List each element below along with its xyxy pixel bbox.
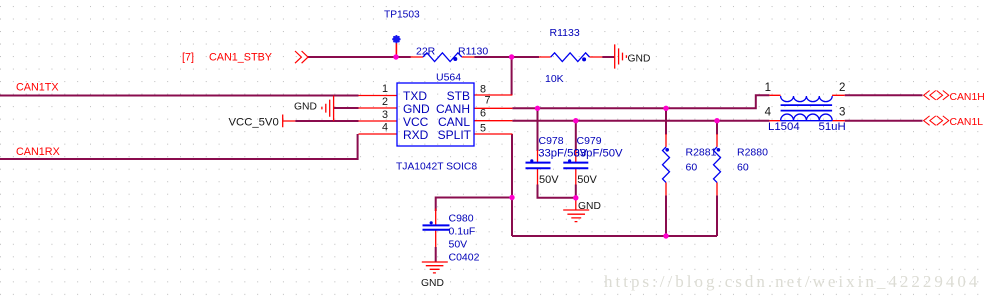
junction STB node: [509, 54, 514, 59]
wire R1130 to junction: [474, 56, 511, 58]
svg-text:https://blog.csdn.net/weixin_4: https://blog.csdn.net/weixin_42229404: [604, 272, 980, 291]
wire C979 bottom: [575, 185, 577, 198]
svg-text:60: 60: [737, 162, 749, 174]
svg-text:TXD: TXD: [403, 89, 427, 103]
svg-text:[7]: [7]: [182, 52, 194, 64]
resistor R1133 zigzag: [551, 53, 590, 62]
wire split bottom rail: [512, 235, 717, 237]
wire C980 to split junction: [436, 198, 512, 212]
svg-text:CAN1H: CAN1H: [950, 92, 985, 103]
svg-text:50V: 50V: [577, 174, 597, 186]
junction C978/CANH: [535, 106, 540, 111]
wire choke pin3 to port CAN1L: [845, 120, 923, 122]
svg-text:TP1503: TP1503: [384, 10, 420, 21]
svg-text:C980: C980: [449, 213, 474, 225]
svg-text:1: 1: [382, 83, 388, 95]
wire C978 bottom to gnd rail: [538, 185, 576, 198]
svg-text:CANH: CANH: [436, 102, 470, 116]
wire C978 top branch: [537, 108, 539, 151]
wire choke pin2 to port CAN1H: [845, 94, 923, 96]
pin 4 stub: [359, 133, 398, 135]
svg-text:CAN1RX: CAN1RX: [16, 146, 60, 158]
svg-text:5: 5: [480, 123, 486, 135]
junction TP1503: [393, 54, 398, 59]
svg-text:R1130: R1130: [458, 46, 488, 58]
svg-text:VCC: VCC: [403, 115, 429, 129]
capacitor C978 plates: [526, 163, 551, 169]
wire C980 bottom to gnd: [435, 247, 437, 262]
wire CAN1_STBY to R1130: [308, 56, 411, 58]
junction R2880/CANL: [714, 118, 719, 123]
resistor R2880 stubs: [716, 134, 718, 195]
wire CAN1RX to pin4: [0, 134, 358, 159]
svg-text:C0402: C0402: [449, 252, 480, 264]
capacitor C979 plates: [563, 163, 588, 169]
svg-text:R1133: R1133: [550, 27, 580, 39]
pin 8 stub: [474, 94, 512, 96]
testpoint TP1503 pad: [392, 35, 401, 44]
resistor R2881 marker dot: [665, 148, 669, 152]
svg-text:1: 1: [765, 82, 771, 94]
inductor L1504 core bars: [781, 105, 833, 111]
resistor R1130 marker dot: [453, 57, 457, 61]
port chevron CAN1H: [924, 91, 949, 100]
svg-text:GND: GND: [421, 278, 444, 289]
port chevron CAN1L: [924, 116, 949, 125]
pin 1 stub: [359, 95, 398, 97]
svg-text:GND: GND: [578, 201, 601, 212]
capacitor C980 stubs: [435, 209, 437, 248]
pin 5 stub: [474, 133, 512, 135]
capacitor C980 plates: [423, 225, 450, 229]
svg-text:3: 3: [839, 107, 845, 119]
svg-text:50V: 50V: [539, 174, 559, 186]
svg-text:GND: GND: [403, 102, 430, 116]
resistor R2881 stubs: [665, 134, 667, 195]
wire R2880 top branch: [716, 121, 718, 135]
svg-text:50V: 50V: [449, 239, 468, 251]
wire R2881 top branch: [665, 108, 667, 134]
resistor R1133 stubs: [539, 56, 602, 58]
svg-text:TJA1042T SOIC8: TJA1042T SOIC8: [396, 162, 477, 173]
svg-text:4: 4: [382, 122, 388, 134]
wire junction down to STB pin8: [511, 57, 513, 95]
wire GND symbol to pin2: [334, 107, 359, 109]
svg-text:4: 4: [765, 107, 772, 119]
svg-text:R2880: R2880: [737, 147, 768, 159]
svg-text:C979: C979: [577, 135, 602, 147]
svg-text:7: 7: [485, 95, 491, 107]
svg-text:C978: C978: [539, 135, 564, 147]
power port VCC_5V0 bar: [283, 115, 296, 128]
op-amp U564 body box: [397, 83, 474, 146]
svg-text:RXD: RXD: [403, 128, 429, 142]
svg-text:CAN1L: CAN1L: [950, 117, 984, 128]
junction R2881/CANH: [663, 106, 668, 111]
svg-text:CAN1_STBY: CAN1_STBY: [209, 52, 272, 64]
svg-text:CANL: CANL: [438, 115, 470, 129]
wire R2881 bottom branch: [665, 195, 667, 236]
pin 3 stub: [359, 120, 398, 122]
resistor R2880 marker dot: [717, 148, 721, 152]
testpoint TP1503 stem: [395, 43, 397, 58]
inductor L1504 bottom winding: [781, 114, 833, 121]
capacitor C979 marker dot: [568, 159, 571, 162]
svg-text:3: 3: [382, 109, 388, 121]
wire CANH rail: [512, 95, 769, 108]
wire C979 top branch: [575, 121, 577, 151]
svg-text:VCC_5V0: VCC_5V0: [229, 117, 279, 129]
junction C978/C979 gnd: [573, 195, 578, 200]
resistor R1133 marker dot: [582, 57, 586, 61]
resistor R2880 zigzag: [714, 147, 721, 183]
svg-text:L1504: L1504: [768, 121, 800, 133]
svg-text:0.1uF: 0.1uF: [449, 226, 476, 238]
svg-text:22R: 22R: [416, 46, 436, 58]
ground symbol top right of R1133: [615, 44, 627, 68]
svg-text:10K: 10K: [545, 73, 564, 85]
resistor R1130 zigzag: [423, 53, 462, 62]
svg-text:51uH: 51uH: [819, 121, 846, 133]
wire R2880 bottom branch: [716, 195, 718, 236]
svg-text:SPLIT: SPLIT: [438, 128, 472, 142]
wire SPLIT pin5 vertical: [511, 134, 513, 236]
pin 6 stub: [474, 120, 512, 122]
junction C979/CANL: [573, 118, 578, 123]
svg-text:R2881: R2881: [686, 147, 717, 159]
capacitor C978 marker dot: [530, 159, 533, 162]
junction bottom rail: [663, 233, 668, 238]
capacitor C980 marker dot: [430, 221, 433, 224]
svg-text:6: 6: [480, 108, 486, 120]
wire CAN1TX to pin1: [0, 95, 359, 97]
resistor R1130 stubs: [411, 56, 475, 58]
port chevron CAN1_STBY: [295, 51, 308, 63]
junction split node: [509, 195, 514, 200]
svg-text:CAN1TX: CAN1TX: [16, 82, 59, 94]
inductor L1504 stubs: [769, 95, 844, 120]
svg-text:GND: GND: [294, 102, 317, 113]
pin 2 stub: [359, 107, 398, 109]
capacitor C978 stubs: [537, 150, 539, 185]
pin 7 stub: [474, 107, 512, 109]
wire CANL rail: [512, 120, 769, 122]
svg-text:U564: U564: [436, 72, 461, 84]
wire VCC_5V0 to pin3: [295, 120, 358, 122]
svg-text:33pF/50V: 33pF/50V: [574, 147, 623, 159]
svg-text:STB: STB: [447, 89, 470, 103]
svg-text:60: 60: [686, 162, 698, 174]
wire R1133 to GND: [602, 56, 615, 58]
resistor R2881 zigzag: [663, 147, 670, 183]
wire junction to R1133: [512, 56, 539, 58]
inductor L1504 top winding: [781, 96, 833, 102]
ground symbol under C980: [422, 262, 448, 273]
svg-text:2: 2: [839, 82, 845, 94]
capacitor C979 stubs: [575, 150, 577, 185]
svg-text:2: 2: [382, 96, 388, 108]
ground symbol at pin2: [322, 96, 334, 121]
svg-text:GND: GND: [628, 54, 651, 65]
ground symbol under C979: [563, 198, 589, 222]
